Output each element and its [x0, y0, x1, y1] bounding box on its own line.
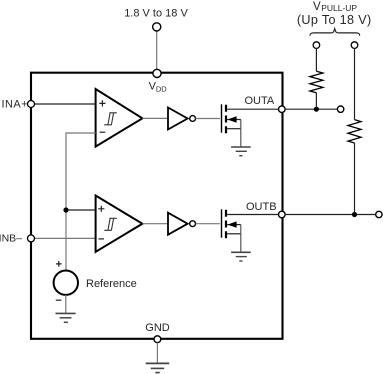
svg-text:V: V — [313, 1, 321, 13]
svg-text:1.8 V to 18 V: 1.8 V to 18 V — [124, 8, 188, 20]
svg-text:PULL-UP: PULL-UP — [321, 3, 357, 13]
svg-text:INB–: INB– — [0, 233, 22, 245]
svg-text:GND: GND — [145, 322, 170, 334]
svg-text:Reference: Reference — [86, 278, 137, 290]
svg-text:DD: DD — [156, 84, 167, 93]
svg-text:(Up To 18 V): (Up To 18 V) — [297, 13, 372, 27]
svg-text:OUTA: OUTA — [245, 95, 275, 107]
svg-text:INA+: INA+ — [1, 98, 28, 110]
svg-text:OUTB: OUTB — [246, 201, 277, 213]
